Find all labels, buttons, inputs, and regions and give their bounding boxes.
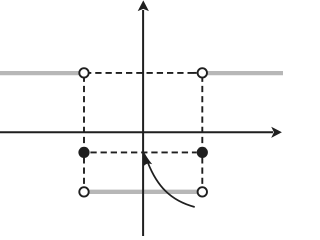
x-axis <box>0 131 273 133</box>
y-axis <box>142 10 144 236</box>
open point top-right <box>198 68 207 77</box>
open point bottom-left <box>79 187 88 196</box>
gray segment bottom (y=-1 branch) <box>84 190 202 194</box>
curved arrow head <box>144 152 153 166</box>
gray segment left (y=1 branch) <box>0 71 80 75</box>
filled point left <box>78 147 89 158</box>
dashed middle line <box>90 151 196 153</box>
dash nub at top-right circle <box>194 72 197 74</box>
dashed left vertical <box>83 76 85 187</box>
y-axis arrowhead <box>138 0 149 11</box>
open point top-left <box>79 68 88 77</box>
dashed right vertical <box>201 76 203 187</box>
curved arrow tail <box>148 163 195 207</box>
open point bottom-right <box>198 187 207 196</box>
filled point right <box>197 147 208 158</box>
dashed top edge <box>85 72 194 74</box>
gray segment right (y=1 branch) <box>206 71 283 75</box>
x-axis arrowhead <box>271 127 282 138</box>
